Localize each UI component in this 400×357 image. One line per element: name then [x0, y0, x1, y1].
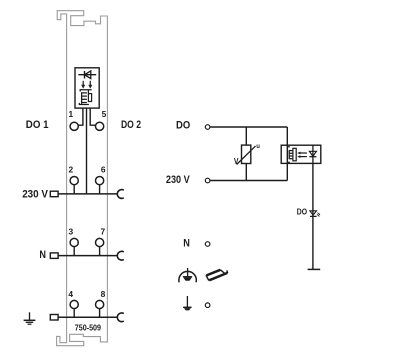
earth funnel symbol — [183, 296, 192, 310]
LED D1 emission arrow left — [81, 81, 85, 89]
svg-text:V: V — [234, 156, 239, 166]
svg-text:1: 1 — [69, 109, 74, 119]
terminal 8 clamp — [96, 300, 104, 308]
rail contact stem — [187, 268, 189, 277]
coupler light arrow lower — [297, 155, 307, 158]
230V clamp mouth (right) — [117, 190, 123, 199]
wire: box to terminal 1 — [78, 108, 83, 125]
stub terminal 8 to rail — [99, 309, 101, 318]
terminal circle earth — [205, 303, 210, 308]
DO status LED cathode bar — [310, 215, 317, 217]
ground symbol (PE) — [24, 312, 36, 324]
svg-text:N: N — [39, 249, 46, 261]
stub terminal 3 to rail — [73, 247, 75, 256]
varistor branch lower wire — [245, 164, 247, 181]
terminal 4 clamp — [70, 300, 78, 308]
LED D1 triangle — [85, 71, 91, 79]
terminal circle 230V — [205, 178, 210, 183]
svg-text:N: N — [183, 238, 190, 250]
terminal 1 clamp — [70, 122, 78, 130]
svg-text:DO: DO — [297, 207, 308, 217]
svg-text:3: 3 — [69, 226, 74, 236]
stub terminal 7 to rail — [99, 247, 101, 256]
rail contact foot — [183, 277, 192, 281]
stub terminal 6 to rail — [99, 185, 101, 194]
bus interface connector glyph (module) — [79, 90, 91, 105]
N rail wire — [58, 255, 117, 257]
terminal 3 clamp — [70, 238, 78, 246]
svg-text:2: 2 — [69, 165, 74, 175]
output wire down — [312, 163, 314, 269]
svg-text:7: 7 — [101, 226, 106, 236]
svg-text:230 V: 230 V — [22, 188, 48, 200]
230V rail wire — [58, 193, 117, 195]
coupler light arrow upper — [297, 152, 307, 155]
svg-text:230 V: 230 V — [166, 174, 190, 186]
field connection end bar — [308, 268, 321, 270]
PE rail wire — [58, 316, 117, 318]
svg-text:u: u — [256, 144, 260, 150]
N feed-through connector (left) — [50, 253, 58, 259]
LED D1 emission arrow right — [88, 81, 92, 89]
wire: box to terminal 5 — [90, 108, 95, 125]
output coupler box U2 — [281, 145, 321, 163]
LED D1 cathode bar — [84, 71, 86, 79]
wire 230V to box — [210, 180, 287, 182]
N clamp mouth (right) — [117, 251, 123, 260]
wire node down through box — [286, 127, 288, 181]
coupler LED cathode bar — [309, 156, 316, 158]
svg-text:5: 5 — [102, 109, 107, 119]
stub terminal 4 to rail — [73, 309, 75, 318]
terminal circle DO — [205, 125, 210, 130]
svg-text:4: 4 — [68, 289, 73, 299]
rail contact symbol (dome) — [179, 271, 196, 282]
svg-text:6: 6 — [101, 165, 106, 175]
LED D1 (status) diode line — [78, 74, 96, 76]
svg-text:750-509: 750-509 — [75, 323, 101, 333]
electronics box U1 — [75, 68, 99, 108]
svg-text:DO 1: DO 1 — [26, 119, 49, 131]
DIN rail icon — [206, 270, 228, 281]
wire: box to 230V rail — [86, 108, 88, 194]
coupler LED vertical line — [312, 145, 314, 163]
PE clamp mouth (right) — [117, 313, 123, 322]
terminal 7 clamp — [96, 238, 104, 246]
varistor diagonal stroke — [237, 146, 256, 165]
svg-text:8: 8 — [101, 289, 106, 299]
terminal 5 clamp — [96, 122, 104, 130]
bus interface connector glyph (coupler) — [287, 147, 296, 163]
stub terminal 2 to rail — [73, 185, 75, 194]
terminal 6 clamp — [96, 177, 104, 185]
svg-text:DO 2: DO 2 — [121, 119, 141, 131]
DO status LED triangle — [310, 211, 317, 215]
module 750-509 housing outline — [57, 11, 108, 346]
terminal 2 clamp — [70, 177, 78, 185]
230V feed-through connector (left) — [50, 191, 58, 197]
varistor RV1 body — [242, 145, 251, 163]
terminal circle N — [205, 242, 210, 247]
svg-text:DO: DO — [176, 120, 190, 132]
PE feed-through connector (left) — [50, 315, 58, 321]
varistor branch upper wire — [245, 127, 247, 145]
DO status LED emission arrows — [317, 213, 319, 216]
coupler LED triangle — [309, 151, 316, 156]
wire DO to box — [210, 126, 287, 128]
